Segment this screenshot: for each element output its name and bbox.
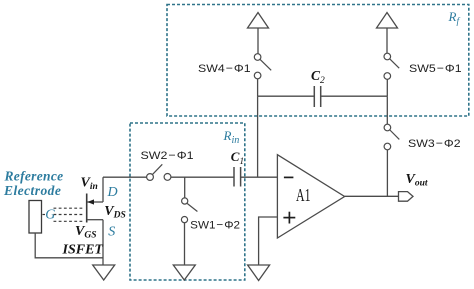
gate dashed lines xyxy=(43,208,84,221)
ground op-amp plus xyxy=(248,265,270,281)
svg-text:Reference: Reference xyxy=(4,168,64,183)
wire xyxy=(257,28,259,54)
wire electrode down xyxy=(35,233,103,258)
svg-text:SW1 − Φ2: SW1 − Φ2 xyxy=(190,220,240,232)
wire C2 right xyxy=(321,95,387,97)
svg-text:ISFET: ISFET xyxy=(62,243,105,258)
ground ISFET source xyxy=(93,265,115,280)
drain contact with arrow xyxy=(87,201,103,203)
source lead xyxy=(102,220,104,265)
capacitor C2 xyxy=(314,86,320,107)
switch SW1 xyxy=(181,198,197,223)
output pin Vout xyxy=(399,192,414,202)
switch SW4 xyxy=(254,54,271,79)
wire SW3 to output xyxy=(386,150,388,197)
wire Vin xyxy=(103,176,147,178)
source contact xyxy=(87,219,103,221)
svg-text:Electrode: Electrode xyxy=(3,183,61,198)
wire xyxy=(386,79,388,96)
switch SW5 xyxy=(384,53,399,79)
switch SW3 xyxy=(384,124,399,150)
reference electrode bar xyxy=(29,201,42,234)
svg-text:D: D xyxy=(107,185,118,200)
capacitor C1 xyxy=(234,167,241,187)
svg-text:S: S xyxy=(108,225,115,240)
transistor ISFET channel xyxy=(86,194,88,223)
ground SW1 xyxy=(173,265,195,280)
supply arrow above SW5 xyxy=(377,13,398,29)
svg-text:SW4 − Φ1: SW4 − Φ1 xyxy=(198,63,251,75)
wire node to SW3 xyxy=(386,96,388,124)
wire junction to SW1 xyxy=(184,177,186,198)
input box Rin xyxy=(130,123,245,280)
svg-text:SW5 − Φ1: SW5 − Φ1 xyxy=(409,63,462,75)
wire C2 left xyxy=(258,95,314,97)
switch SW2 xyxy=(147,164,171,180)
non-inverting input wire xyxy=(259,217,278,265)
feedback box Rf xyxy=(167,5,469,117)
svg-text:SW2 − Φ1: SW2 − Φ1 xyxy=(141,150,194,162)
plus sign xyxy=(283,217,295,219)
wire SW2 to C1 xyxy=(171,176,234,178)
wire node to inverting input xyxy=(257,96,259,177)
drain lead xyxy=(102,177,104,202)
wire C1 to op-amp xyxy=(241,176,278,178)
svg-text:SW3 − Φ2: SW3 − Φ2 xyxy=(408,138,461,150)
output wire xyxy=(345,195,399,197)
minus sign xyxy=(284,176,294,178)
wire xyxy=(386,28,388,53)
op-amp A1 xyxy=(277,155,344,238)
wire xyxy=(257,79,259,96)
supply arrow above SW4 xyxy=(248,13,269,29)
svg-text:A1: A1 xyxy=(296,185,311,205)
wire SW1 to ground xyxy=(184,223,186,265)
